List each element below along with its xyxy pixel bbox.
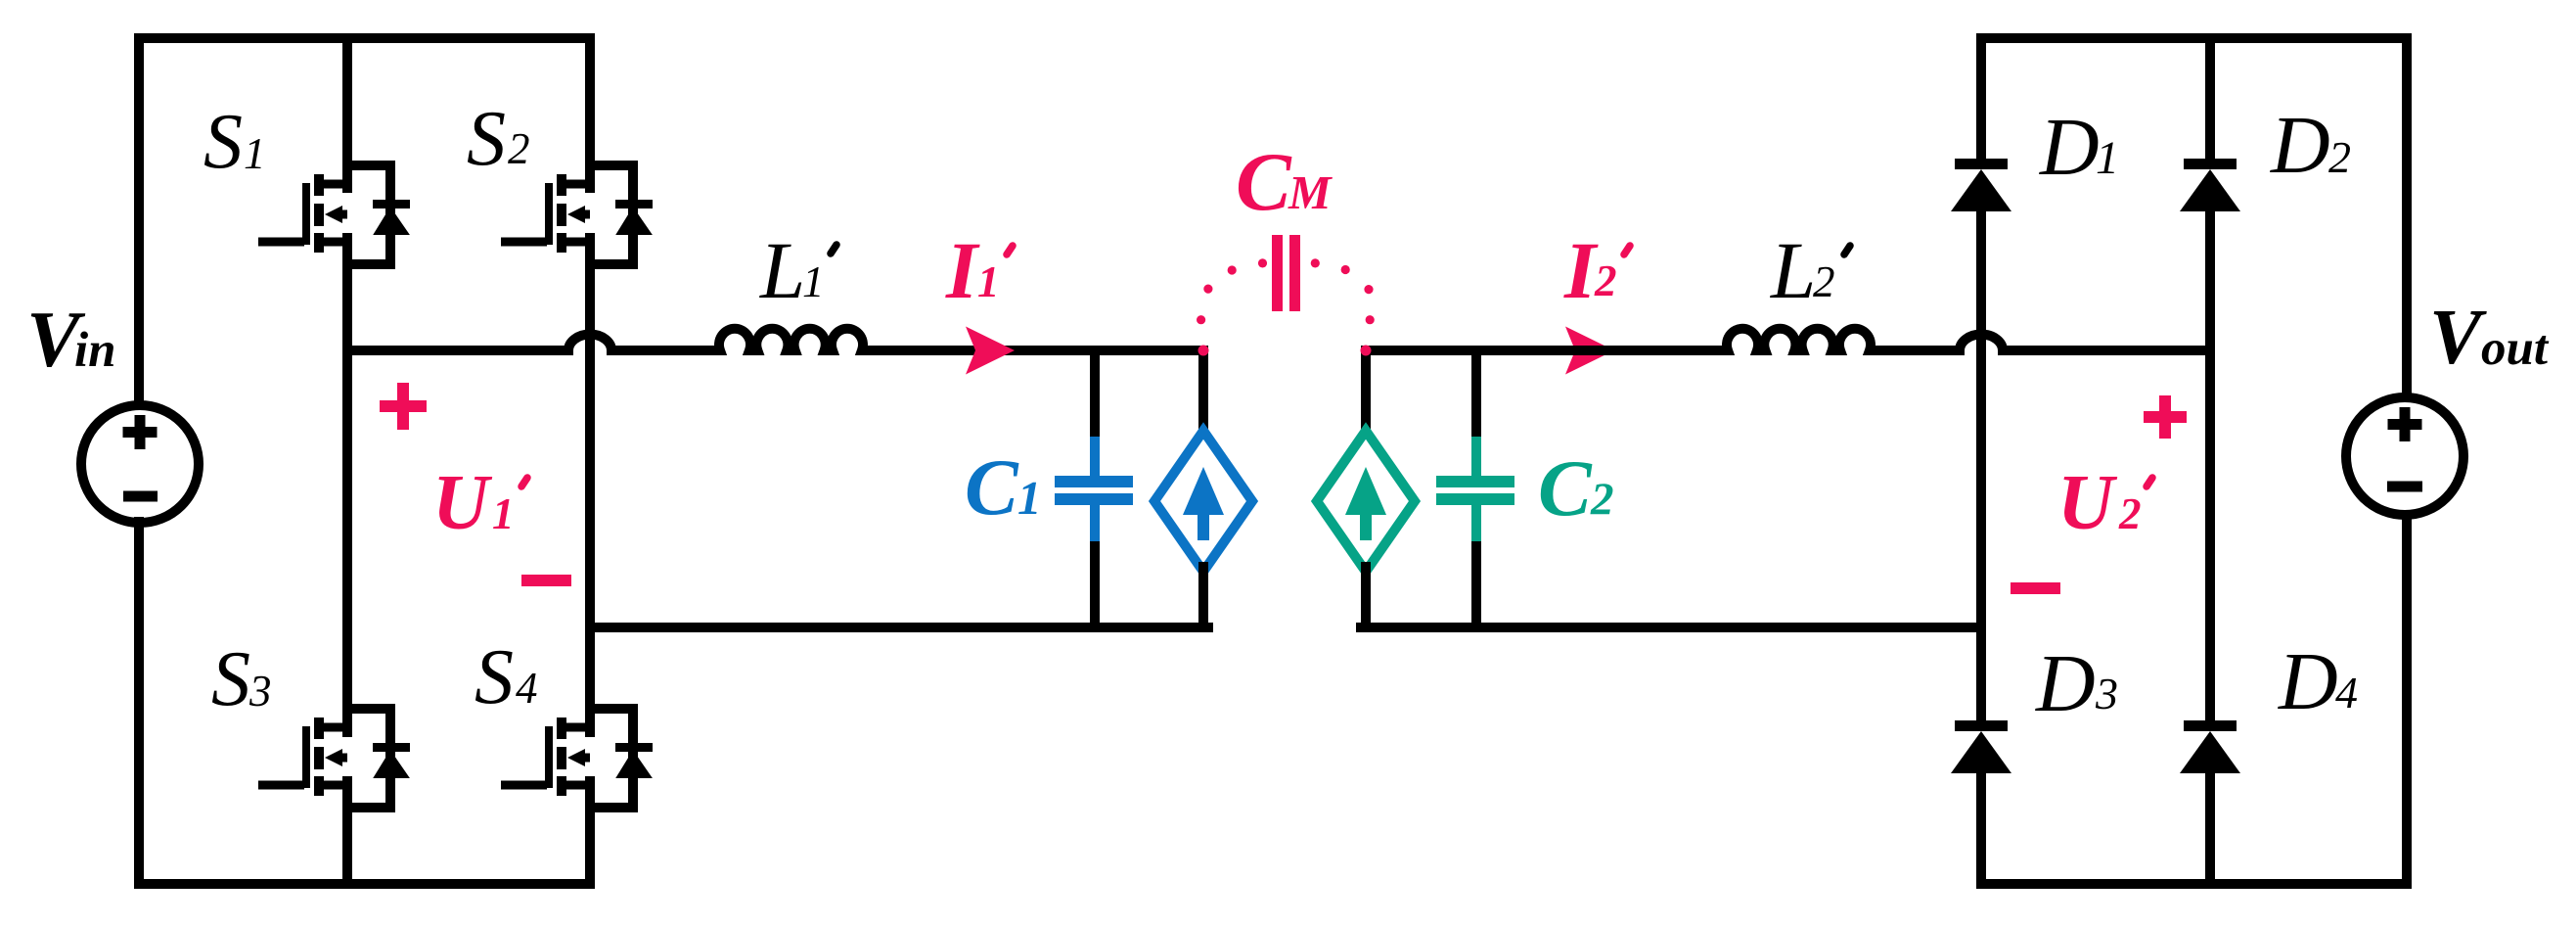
transistor S1	[258, 165, 410, 264]
current source dependent 2	[1317, 431, 1415, 572]
wire rleg1 middle	[1976, 208, 1986, 720]
wire leg2 lower (S4 source to bottom rail)	[585, 781, 595, 884]
wire bridge output upper with hop and inductor L1	[347, 329, 1203, 350]
label U1 minus	[521, 575, 571, 586]
wire rleg1 upper	[1976, 38, 1986, 159]
wire rleg2 middle	[2205, 208, 2215, 720]
svg-text:M: M	[1288, 165, 1333, 219]
svg-text:I: I	[945, 225, 980, 315]
svg-text:2: 2	[1590, 474, 1614, 525]
node left coupling terminal	[1198, 346, 1209, 356]
diode D4	[2180, 720, 2240, 773]
wire Vout upper lead	[2402, 38, 2412, 398]
svg-text:in: in	[74, 323, 116, 378]
node right coupling terminal	[1361, 346, 1372, 356]
wire right bottom rail	[1981, 879, 2407, 889]
source Vin	[81, 405, 199, 523]
svg-text:4: 4	[2335, 668, 2358, 718]
svg-text:2: 2	[2118, 489, 2142, 538]
wire leg1 lower (S3 source to bottom rail)	[342, 781, 352, 884]
svg-text:2: 2	[2328, 132, 2351, 182]
svg-text:S: S	[467, 96, 506, 182]
wire current-source 2 branch bottom	[1361, 567, 1371, 627]
svg-text:L: L	[759, 225, 805, 315]
wire Vin upper lead	[134, 38, 144, 406]
capacitor C1	[1055, 437, 1133, 544]
svg-text:D: D	[2039, 102, 2100, 193]
wire Vout lower lead	[2402, 515, 2412, 884]
label U2 minus	[2011, 582, 2060, 594]
svg-text:C: C	[965, 442, 1019, 532]
wire leg2 middle (S2 source to S4 drain)	[585, 238, 595, 732]
svg-text:2: 2	[1813, 257, 1835, 306]
svg-text:V: V	[2429, 295, 2487, 381]
wire rleg2 upper	[2205, 38, 2215, 159]
transistor S3	[258, 709, 410, 808]
svg-text:1: 1	[802, 257, 825, 306]
label U1 plus	[380, 383, 427, 430]
svg-text:out: out	[2481, 321, 2550, 376]
wire current-source 1 branch top	[1198, 350, 1208, 436]
capacitor CM	[1272, 235, 1300, 311]
wire Vin lower lead	[134, 522, 144, 884]
wire dotted coupling arc	[1197, 258, 1375, 324]
svg-text:S: S	[211, 636, 250, 722]
svg-text:C: C	[1236, 136, 1292, 228]
wire rleg1 lower	[1976, 769, 1986, 884]
diode D3	[1951, 720, 2011, 773]
diode D1	[1951, 159, 2011, 211]
wire right top rail	[1981, 33, 2407, 43]
svg-text:D: D	[2270, 100, 2330, 191]
svg-text:D: D	[2278, 636, 2338, 727]
transistor S2	[501, 165, 653, 264]
svg-text:1: 1	[1017, 471, 1042, 525]
current arrow I2	[1565, 327, 1614, 375]
wire C1 branch top	[1090, 350, 1100, 440]
svg-text:U: U	[2057, 460, 2118, 546]
source Vout	[2346, 397, 2463, 515]
svg-text:S: S	[203, 99, 243, 185]
svg-text:I: I	[1563, 225, 1599, 315]
svg-text:3: 3	[249, 667, 272, 716]
diode D2	[2180, 159, 2240, 211]
svg-text:U: U	[432, 460, 493, 546]
svg-text:2: 2	[508, 124, 530, 173]
wire current-source 1 branch bottom	[1198, 567, 1208, 627]
svg-text:1: 1	[244, 129, 266, 178]
svg-text:C: C	[1538, 443, 1593, 532]
svg-text:3: 3	[2095, 669, 2118, 718]
wire leg1 middle (S1 source to S3 drain through node)	[342, 238, 352, 732]
wire rleg2 lower	[2205, 769, 2215, 884]
wire leg1 upper (top rail to S1 drain)	[342, 38, 352, 188]
wire bridge output lower right	[1361, 623, 1981, 632]
wire left bottom rail	[139, 879, 590, 889]
wire C2 branch top	[1471, 350, 1481, 440]
capacitor C2	[1436, 437, 1514, 544]
current arrow I1	[966, 327, 1015, 375]
wire C1 branch bottom	[1090, 546, 1100, 627]
wire C2 branch bottom	[1471, 546, 1481, 627]
transistor S4	[501, 709, 653, 808]
svg-text:S: S	[475, 634, 514, 720]
current source dependent 1	[1154, 431, 1252, 572]
svg-text:L: L	[1770, 225, 1816, 315]
wire bridge output lower left	[590, 623, 1208, 632]
wire rectifier input upper with inductor L2 and hop	[1366, 329, 2210, 350]
svg-text:1: 1	[492, 489, 515, 538]
wire current-source 2 branch top	[1361, 350, 1371, 436]
svg-text:1: 1	[977, 257, 1000, 306]
wire leg2 upper (top rail to S2 drain)	[585, 38, 595, 188]
svg-text:1: 1	[2096, 132, 2119, 184]
label U2 plus	[2144, 395, 2187, 439]
svg-text:2: 2	[1594, 256, 1617, 305]
svg-text:D: D	[2035, 638, 2096, 729]
wire left top rail	[139, 33, 590, 43]
svg-text:4: 4	[516, 664, 538, 713]
